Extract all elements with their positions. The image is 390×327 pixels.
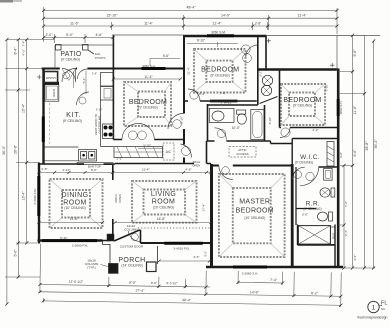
svg-text:OPEN: OPEN: [118, 194, 122, 203]
svg-text:8'-4": 8'-4": [13, 47, 17, 55]
svg-text:3'-2": 3'-2": [259, 71, 263, 77]
svg-text:3060 S.H.: 3060 S.H.: [142, 64, 156, 68]
svg-text:26'-8": 26'-8": [13, 144, 17, 154]
svg-text:5'-0": 5'-0": [13, 249, 17, 257]
svg-text:6'-2": 6'-2": [311, 291, 319, 295]
svg-text:2'-1": 2'-1": [116, 157, 122, 161]
svg-text:1: 1: [372, 304, 376, 311]
svg-text:2'-0": 2'-0": [46, 33, 54, 37]
svg-text:48'-4": 48'-4": [187, 6, 197, 10]
svg-text:SC: SC: [381, 307, 386, 311]
svg-text:(9' CEILING): (9' CEILING): [63, 119, 82, 123]
svg-text:11'-4": 11'-4": [298, 14, 307, 18]
svg-text:11'-6": 11'-6": [70, 217, 79, 221]
svg-text:11'-0 1/2": 11'-0 1/2": [69, 280, 84, 284]
svg-text:OPEN: OPEN: [192, 163, 200, 167]
svg-text:5'-10": 5'-10": [325, 84, 329, 91]
svg-text:4'-8": 4'-8": [185, 168, 191, 172]
svg-text:11'-6": 11'-6": [70, 21, 79, 25]
svg-text:6'-6": 6'-6": [353, 149, 357, 157]
svg-text:(10' CEILING): (10' CEILING): [64, 206, 85, 210]
svg-text:10'-0": 10'-0": [232, 126, 241, 130]
svg-text:3'-10": 3'-10": [143, 144, 151, 148]
svg-text:2'-8": 2'-8": [41, 167, 47, 171]
svg-text:4'-2": 4'-2": [353, 255, 357, 261]
svg-text:5'-0": 5'-0": [66, 33, 74, 37]
svg-text:6" WALL: 6" WALL: [221, 100, 232, 104]
svg-text:8'-10": 8'-10": [268, 117, 272, 124]
svg-text:PANTRY: PANTRY: [46, 76, 57, 80]
svg-text:5'-10": 5'-10": [180, 116, 184, 124]
svg-text:(10' CEILING): (10' CEILING): [153, 205, 174, 209]
svg-text:5'-8": 5'-8": [353, 49, 357, 57]
svg-text:28'-8": 28'-8": [365, 141, 369, 151]
svg-text:4'-3": 4'-3": [193, 255, 199, 259]
svg-text:(9' CEILING): (9' CEILING): [210, 73, 229, 77]
svg-text:ROOM: ROOM: [152, 198, 175, 205]
svg-text:CUSTOM DOOR: CUSTOM DOOR: [120, 244, 144, 248]
svg-text:5'-11": 5'-11": [60, 236, 68, 240]
svg-text:4'-6": 4'-6": [339, 152, 343, 158]
svg-text:8'-5 1/2": 8'-5 1/2": [166, 281, 177, 285]
svg-text:POSTS: POSTS: [95, 56, 106, 60]
svg-text:2'-6": 2'-6": [92, 71, 97, 75]
svg-text:(10' CEILING): (10' CEILING): [244, 216, 265, 220]
svg-text:(TYP.): (TYP.): [87, 266, 96, 270]
svg-text:11'-4": 11'-4": [213, 21, 222, 25]
svg-text:48'-4": 48'-4": [182, 298, 192, 302]
svg-text:KIT.: KIT.: [66, 110, 81, 119]
svg-text:(14' CEILING): (14' CEILING): [121, 264, 142, 268]
svg-text:2-3060 S.H.: 2-3060 S.H.: [242, 271, 259, 275]
svg-text:(9' CEILING): (9' CEILING): [61, 58, 80, 62]
svg-text:(9' CEILING): (9' CEILING): [138, 105, 157, 109]
svg-text:BEDROOM: BEDROOM: [236, 208, 274, 215]
svg-text:8'-0": 8'-0": [129, 281, 137, 285]
svg-text:11'-4": 11'-4": [142, 168, 150, 172]
svg-text:3060 S.H.: 3060 S.H.: [339, 100, 343, 114]
svg-text:(9' CEILING): (9' CEILING): [295, 161, 313, 165]
svg-text:11'-4": 11'-4": [144, 75, 153, 79]
svg-text:2-3060 FXL: 2-3060 FXL: [33, 188, 37, 204]
svg-text:OUTSIDE AIR: OUTSIDE AIR: [98, 116, 102, 134]
svg-text:ACCESS: ACCESS: [236, 152, 248, 156]
svg-text:3060 S.M.: 3060 S.M.: [211, 30, 226, 34]
svg-text:4'-2": 4'-2": [204, 251, 208, 257]
svg-text:(9' CEILING): (9' CEILING): [303, 207, 321, 211]
svg-text:7'-4": 7'-4": [22, 40, 26, 46]
svg-text:REFR.: REFR.: [52, 88, 56, 97]
svg-text:11'-4": 11'-4": [187, 67, 191, 75]
svg-text:(9' CEILING): (9' CEILING): [293, 103, 312, 107]
svg-text:LIVING: LIVING: [151, 191, 176, 198]
svg-text:11'-4": 11'-4": [144, 21, 153, 25]
svg-text:2'-10": 2'-10": [96, 107, 103, 111]
svg-text:13'-4": 13'-4": [22, 191, 26, 201]
svg-text:FL: FL: [381, 300, 387, 306]
svg-text:freehomeplandesign: freehomeplandesign: [358, 315, 388, 319]
svg-text:2'-10": 2'-10": [63, 168, 71, 172]
svg-text:4'-6": 4'-6": [96, 33, 104, 37]
svg-text:22'-10": 22'-10": [107, 14, 119, 18]
svg-text:8'-10": 8'-10": [197, 38, 205, 42]
svg-text:8'-0": 8'-0": [91, 168, 97, 172]
svg-text:7'-4": 7'-4": [220, 92, 226, 96]
svg-text:2-3060 FXL: 2-3060 FXL: [72, 243, 88, 247]
svg-text:3-4016 FXL: 3-4016 FXL: [173, 247, 189, 251]
svg-text:5'-4": 5'-4": [82, 78, 86, 84]
svg-text:3'-0": 3'-0": [302, 213, 308, 217]
svg-text:DINING: DINING: [62, 192, 89, 199]
svg-text:36'-4": 36'-4": [374, 139, 378, 149]
svg-text:11'-6": 11'-6": [353, 105, 357, 114]
svg-text:COLUMN: COLUMN: [124, 227, 137, 231]
svg-text:2'-8": 2'-8": [255, 21, 261, 25]
svg-text:27'-4": 27'-4": [135, 289, 145, 293]
svg-text:16'-8": 16'-8": [157, 217, 166, 221]
svg-text:36'-4": 36'-4": [2, 145, 6, 155]
svg-text:MASTER: MASTER: [239, 199, 270, 206]
svg-text:14'-8": 14'-8": [250, 290, 260, 294]
svg-text:6'-0": 6'-0": [151, 281, 157, 285]
svg-text:7'-2": 7'-2": [344, 201, 348, 207]
svg-text:14'-0": 14'-0": [221, 14, 231, 18]
svg-text:2'-4": 2'-4": [344, 230, 348, 236]
svg-text:4'-0": 4'-0": [22, 49, 26, 55]
svg-text:3'-4": 3'-4": [199, 92, 205, 96]
svg-text:SEAT: SEAT: [332, 232, 336, 239]
svg-text:5'-6": 5'-6": [163, 54, 169, 58]
svg-text:A/C: A/C: [166, 150, 172, 154]
svg-text:15'-4": 15'-4": [22, 103, 26, 113]
svg-text:4'-2": 4'-2": [312, 128, 318, 132]
svg-text:17'-4": 17'-4": [202, 204, 206, 212]
svg-text:7'-4": 7'-4": [270, 278, 278, 282]
